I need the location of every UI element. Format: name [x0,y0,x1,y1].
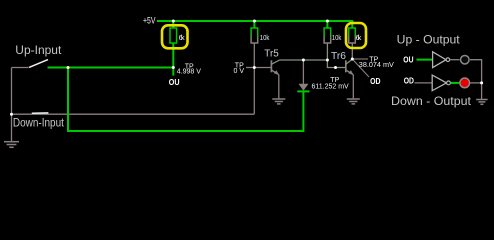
wire Up node down (over crossing) [67,110,69,131]
svg-text:OU: OU [169,78,180,87]
svg-text:Up - Output: Up - Output [397,35,461,47]
wire Up switch left lead [12,67,29,69]
highlight box around R1 [162,25,188,48]
svg-text:Tr5: Tr5 [264,49,279,60]
switch S1 Up-Input blade (open) [29,60,48,68]
wire 10k R2 top lead [253,21,255,28]
svg-text:611.252 mV: 611.252 mV [312,83,350,90]
wire U2 to lamp L2 (high/green) [451,82,460,84]
svg-text:0 V: 0 V [234,68,245,75]
resistor R2 10k body [251,28,258,43]
switch S2 Down-Input blade (closed) [32,112,49,114]
wire 6k R1 top lead [172,21,174,28]
transistor Tr5 [271,60,279,98]
transistor Tr6 emitter arrow [348,70,354,75]
svg-text:10k: 10k [332,33,342,42]
svg-text:Down - Output: Down - Output [391,96,472,108]
svg-text:6k: 6k [356,33,362,42]
ground left (Down-Input) [4,142,19,148]
wire TP lead 0V [246,67,254,69]
diode D1 body [299,84,309,91]
wire Tr5 base lead [254,67,271,69]
wire U1 to lamp L1 [450,59,460,61]
inverter U1 bubble [446,58,450,62]
ground for Tr5 [272,99,285,104]
wire lamp L2 to right rail [470,82,482,84]
svg-text:OD: OD [404,77,414,86]
inverter U2 triangle [432,75,446,91]
wire OD to inverter (low/grey) [415,82,433,84]
svg-text:6k: 6k [179,33,185,42]
node rail/R1 [172,20,175,23]
resistor R4 6k body [349,28,356,43]
ground right [476,100,487,105]
node Tr5 base [253,66,256,69]
wire 10k R3 top lead [326,21,328,28]
node right rail junction [480,81,483,84]
wire bottom run to diode [67,91,303,131]
lamp L2 (on, red) [460,78,470,88]
svg-text:OD: OD [370,77,381,86]
wire lamp L1 to right rail [470,60,482,99]
svg-text:OU: OU [403,55,413,64]
svg-text:4.998 V: 4.998 V [177,68,201,75]
node TP 611 [334,66,337,69]
highlight box around R4 [346,23,366,48]
node R3 foot corner [326,59,329,62]
wire 10k R2 foot / Tr5 base vertical [253,43,255,114]
wire left vertical to ground [11,68,13,142]
svg-text:10k: 10k [260,33,270,42]
transistor Tr6 [346,59,354,98]
node Up net / R1 foot [172,66,175,69]
wire diode D1 anode lead [302,60,304,84]
svg-text:Up-Input: Up-Input [15,45,62,57]
node Down-Input junction [10,113,13,116]
inverter U2 bubble [447,81,451,85]
diode D1 cathode bar [297,90,309,92]
node Up switch junction [67,66,70,69]
wire TP lead 38mV [352,58,368,60]
wire 10k R3 foot down to Tr6 base [327,43,345,68]
wire Up-Input net (switch to R1 foot) [48,67,174,69]
resistor R1 6k body [170,28,177,43]
node rail/R2 [253,20,256,23]
wire 6k R1 bottom lead with test-point stub [172,43,174,76]
svg-text:+5V: +5V [143,16,156,26]
wire Down-Input net [12,113,255,115]
node rail/R3 [326,20,329,23]
wire OD link lead [352,59,369,77]
resistor R3 10k body [324,28,331,43]
wire OU to inverter (high/green) [417,59,433,61]
wire +5V rail [157,21,352,28]
inverter U1 triangle [433,52,446,68]
svg-text:38.074 mV: 38.074 mV [359,62,394,69]
svg-text:Tr6: Tr6 [331,51,346,62]
node Tr6 collector [351,58,354,61]
wire 6k R4 bottom lead [351,43,353,59]
wire Up node down [67,68,69,132]
ground for Tr6 [347,99,360,104]
wire Tr5 collector run [279,59,327,61]
node diode top [302,59,305,62]
lamp L1 (off) [461,55,470,64]
svg-text:Down-Input: Down-Input [13,117,65,129]
transistor Tr5 emitter arrow [274,70,280,75]
